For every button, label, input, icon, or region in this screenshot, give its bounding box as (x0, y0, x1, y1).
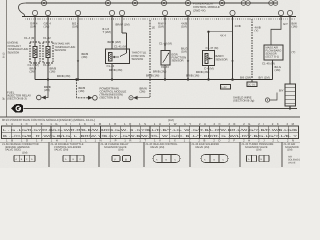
intake air temperature sensor label (55, 42, 76, 53)
svg-text:SENSOR: SENSOR (8, 50, 20, 54)
wire down to PCM transmission arrow (75, 78, 88, 98)
condenser component (285, 84, 296, 109)
boost sensor label (216, 54, 228, 62)
svg-text:8F: 8F (3, 97, 6, 100)
svg-text:C1-44 (M): C1-44 (M) (159, 42, 172, 46)
svg-text:G/Y: G/Y (283, 22, 288, 26)
ground wire G bus (24, 107, 298, 109)
boost sensor pin labels (204, 24, 241, 71)
svg-text:SENSOR: SENSOR (216, 58, 228, 62)
svg-text:(1M): (1M) (79, 89, 85, 93)
wire to ECT sensor (24, 20, 38, 42)
throttle position sensor (106, 49, 130, 64)
note box ground lead (262, 60, 281, 80)
svg-text:(1M): (1M) (181, 25, 187, 29)
connector E-30 label (284, 143, 299, 152)
svg-text:(SECTION B-3g): (SECTION B-3g) (233, 99, 254, 103)
svg-text:C1-47 (M): C1-47 (M) (206, 46, 219, 50)
ground bus wire (35, 70, 273, 81)
ground marker G (11, 104, 23, 112)
svg-text:BR/B (2M): BR/B (2M) (196, 70, 209, 74)
svg-text:B/Y: B/Y (279, 89, 284, 93)
shielded return wire (150, 20, 155, 98)
svg-text:(2M): (2M) (30, 70, 36, 74)
svg-text:(1M): (1M) (292, 25, 298, 29)
svg-text:(2M): (2M) (140, 90, 146, 94)
legend dividers (49, 142, 282, 167)
fuel injector relay off-page arrow (37, 95, 46, 100)
shielded drain wire (240, 19, 270, 80)
engine coolant temperature sensor label (8, 41, 29, 55)
svg-text:(2M): (2M) (82, 55, 88, 59)
PCM transmission off-page arrow (88, 96, 97, 101)
intake air temperature sensor (43, 42, 53, 63)
svg-text:(Y): (Y) (292, 50, 296, 54)
svg-text:(1M): (1M) (44, 25, 50, 29)
svg-text:(1M): (1M) (30, 25, 36, 29)
connector E-16 label (51, 143, 84, 152)
svg-text:VALVE SIDE): VALVE SIDE) (5, 149, 21, 152)
svg-text:L-02: L-02 (222, 86, 228, 89)
MAF sensor note box (264, 45, 283, 60)
svg-text:JC-01: JC-01 (248, 84, 255, 87)
EGR sensor ground lead (153, 65, 169, 80)
svg-text:VALVE (2M): VALVE (2M) (54, 149, 68, 152)
connector E-23 face view (247, 155, 270, 162)
svg-text:1E: 1E (152, 26, 156, 30)
svg-text:B/9 (2M): B/9 (2M) (240, 75, 251, 79)
svg-text:(Y): (Y) (255, 29, 259, 33)
bottom legend top rule (0, 141, 300, 143)
power relay control module label (193, 2, 220, 13)
PCM connector title (2, 118, 174, 122)
connector E-20 label (146, 143, 179, 149)
pin stubs through bus (35, 15, 290, 20)
svg-text:VALVE (1M): VALVE (1M) (150, 146, 164, 149)
svg-text:C1-42: C1-42 (43, 36, 51, 40)
svg-text:BR/B (2M): BR/B (2M) (57, 74, 70, 78)
connector E-20 face view (153, 155, 180, 163)
inline connector C at top wire (41, 0, 277, 5)
svg-text:BR/B (2M): BR/B (2M) (108, 40, 121, 44)
connector E-30 note text (288, 156, 301, 165)
ECT sensor ground lead (28, 63, 39, 80)
svg-text:(1M): (1M) (72, 25, 78, 29)
PCM bus dotted edge (25, 18, 296, 20)
svg-text:(1M): (1M) (275, 68, 281, 72)
svg-text:(1M): (1M) (158, 25, 164, 29)
connector reference L-02 (221, 85, 231, 90)
connector E-26 label (192, 143, 220, 149)
svg-text:(1M): (1M) (287, 149, 293, 152)
joint connector below shield junction (247, 80, 257, 87)
wire from pin 188 to ground bus (181, 20, 189, 80)
shield wire label (233, 96, 254, 103)
wire to EGR function sensor (158, 20, 172, 51)
wire from pin 232 to ground bus (207, 20, 233, 80)
wire from pin to ground bus (72, 20, 88, 80)
engine coolant temperature sensor (30, 42, 40, 63)
wire to TP sensor (103, 20, 130, 49)
svg-text:F: F (115, 157, 117, 161)
wire to IAT sensor (43, 20, 51, 42)
svg-text:(1M): (1M) (50, 70, 56, 74)
IAT sensor ground lead (43, 63, 56, 80)
svg-text:SENSOR: SENSOR (132, 57, 144, 61)
svg-text:(2M): (2M) (44, 88, 50, 92)
return connector from PCM transmission (129, 87, 150, 100)
svg-text:4X 4: 4X 4 (220, 34, 226, 38)
long wire to condenser (290, 20, 297, 84)
svg-text:B-13: B-13 (3, 52, 6, 58)
svg-text:BR/B (2M): BR/B (2M) (109, 68, 122, 72)
powertrain control module label (100, 86, 127, 99)
connector E-66 face view (14, 155, 35, 162)
TP sensor ground lead (107, 64, 123, 80)
connector E-18 label (101, 143, 129, 152)
PCM bus bar (22, 16, 296, 18)
svg-text:(1M): (1M) (256, 149, 262, 152)
svg-text:(SECT B-1): (SECT B-1) (266, 55, 280, 58)
wire to TP sensor second pin (122, 20, 127, 49)
connector E-66 label (2, 143, 39, 154)
svg-text:B ·L/O·G/B· R ·W/G·B/LG· L ·BR: B ·L/O·G/B· R ·W/G·B/LG· L ·BR/W·Y/B·GY·… (3, 134, 297, 138)
EGR function sensor label (172, 53, 187, 63)
svg-text:VALVE: VALVE (288, 161, 296, 164)
svg-text:(1M): (1M) (118, 149, 124, 152)
svg-text:L · G ·LG/R·GY/R·B/LG·W/R·R/B·: L · G ·LG/R·GY/R·B/LG·W/R·R/B·B/W·BR/B·G… (3, 128, 297, 132)
page margin note (3, 52, 6, 100)
boost sensor ground lead (208, 66, 210, 80)
shield wire connector (265, 89, 283, 103)
svg-text:C1-4 (M): C1-4 (M) (24, 36, 35, 40)
svg-text:B/Y (1M): B/Y (1M) (259, 75, 270, 79)
svg-text:SENSOR: SENSOR (55, 48, 67, 52)
PCM connector pinout table (2, 126, 299, 139)
svg-text:B: B (125, 157, 127, 161)
connector E-23 label (242, 143, 274, 152)
svg-text:C1-45 (M): C1-45 (M) (262, 62, 275, 66)
top feed wire (19, 3, 278, 17)
page margin rule (6, 0, 8, 117)
throttle position sensor label (132, 51, 147, 62)
connector E-16 face view (63, 155, 84, 162)
footer separator (0, 116, 300, 118)
svg-text:C1-41 (M): C1-41 (M) (114, 45, 127, 49)
svg-text:(SECTION B-3): (SECTION B-3) (100, 96, 120, 100)
svg-text:1A/B: 1A/B (235, 24, 241, 28)
svg-text:BR/B (1M): BR/B (1M) (146, 74, 159, 78)
wire down to fuel injector relay arrow (44, 80, 51, 98)
stepped feed wire to note box (271, 15, 288, 45)
svg-text:VALVE (1M): VALVE (1M) (195, 146, 209, 149)
svg-text:(2WD 4X): (2WD 4X) (193, 8, 206, 12)
svg-text:BR/B (1M): BR/B (1M) (186, 74, 199, 78)
PCM pin connectors on bus (32, 10, 292, 15)
connector E-18 face view (112, 156, 131, 162)
svg-text:BR/W (1M): BR/W (1M) (116, 23, 130, 27)
fuel injector relay label (7, 91, 31, 101)
connector E-26 face view (201, 155, 228, 163)
svg-text:(SECTION B-3): (SECTION B-3) (7, 97, 27, 101)
svg-text:SENSOR: SENSOR (172, 59, 184, 63)
EGR function sensor (161, 51, 170, 66)
svg-text:(1M): (1M) (181, 50, 187, 54)
svg-text:T (2M): T (2M) (103, 30, 111, 34)
boost sensor (203, 51, 215, 66)
svg-text:(1M): (1M) (22, 151, 28, 154)
